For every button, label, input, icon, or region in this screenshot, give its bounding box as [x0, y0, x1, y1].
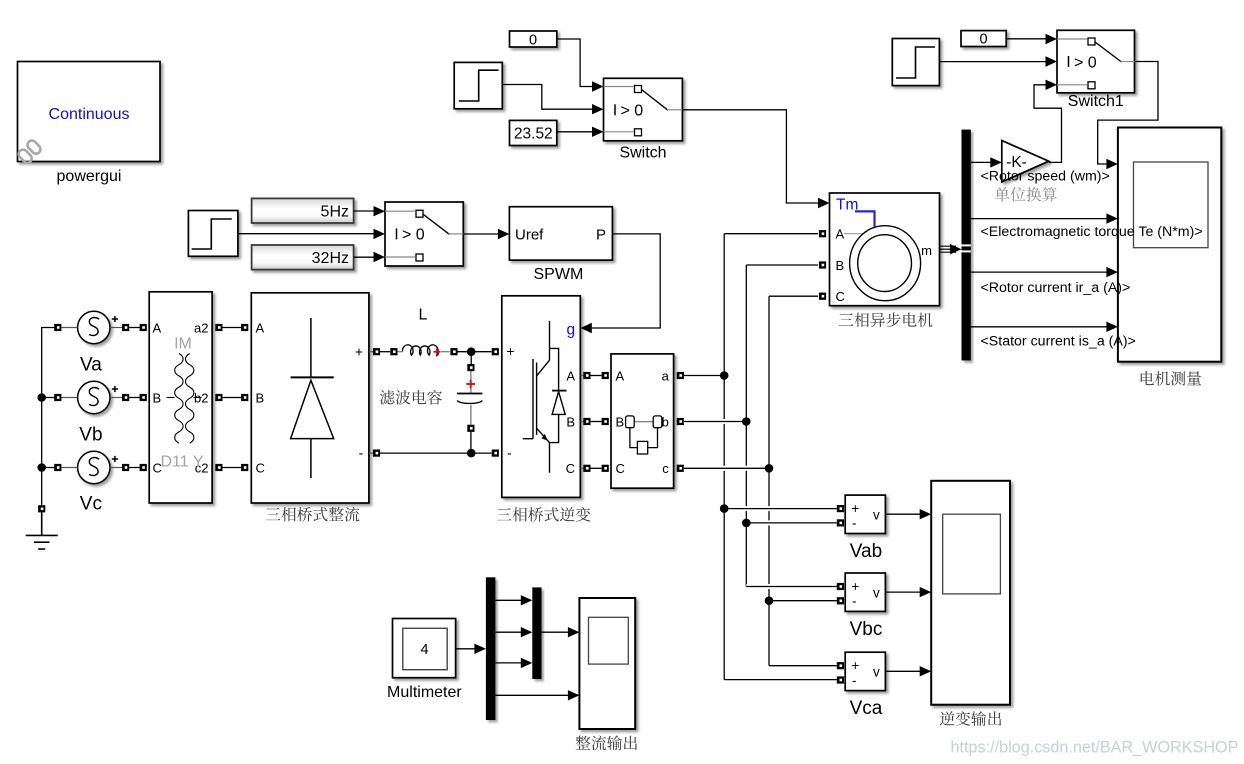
constant block 5Hz — [252, 198, 354, 223]
wire b output to rail — [684, 419, 747, 424]
svg-text:a: a — [662, 368, 670, 383]
motor label — [839, 313, 933, 328]
step source Step1 — [188, 211, 238, 257]
constant block 32Hz — [252, 245, 354, 270]
Vc sine glyph — [89, 458, 99, 476]
wire Va to transformer — [129, 327, 139, 329]
transformer output port — [215, 394, 222, 401]
svg-text:P: P — [596, 227, 606, 244]
scope block motor measurement — [1118, 128, 1221, 362]
inductor right port — [450, 348, 457, 355]
switch output stub — [1121, 61, 1135, 63]
rectifier diode symbol — [291, 318, 334, 478]
wire phase-a vertical rail — [723, 234, 725, 680]
capacitor bottom port — [467, 425, 474, 432]
Vc plus sign — [112, 456, 118, 462]
inverter output stub — [580, 375, 583, 377]
mux bar lower — [532, 587, 541, 679]
rectifier - stub — [369, 452, 373, 454]
wire mux to scope rectifier output — [542, 631, 569, 633]
svg-text:Uref: Uref — [515, 227, 544, 244]
wire rail-b to Vab- — [746, 520, 837, 525]
AC voltage source Va — [78, 311, 110, 343]
svg-text:powergui: powergui — [57, 168, 122, 185]
motor rotor outer circle — [850, 226, 921, 301]
measurement input port — [602, 418, 609, 425]
svg-text:0: 0 — [980, 32, 988, 48]
scope label — [1141, 371, 1202, 386]
step icon — [459, 70, 499, 101]
AC voltage source Vb — [78, 381, 110, 413]
motor A port — [819, 230, 826, 237]
svg-text:-: - — [359, 445, 364, 461]
svg-text:+: + — [851, 501, 859, 516]
wire phase-b vertical rail — [745, 265, 747, 587]
gain block -K- — [1002, 141, 1049, 183]
wire Vc to transformer — [129, 467, 139, 469]
switch threshold tick — [614, 104, 616, 115]
svg-text:b: b — [662, 414, 669, 429]
wire inverter to measurement block — [590, 467, 601, 469]
voltage measurement block Vca — [845, 652, 885, 690]
wire demux to scope input2 — [495, 694, 568, 696]
svg-text:L: L — [418, 307, 427, 324]
switch input-1 port — [635, 86, 642, 93]
wire phase-c vertical rail — [768, 296, 770, 666]
Va sine glyph — [89, 318, 99, 336]
wire transformer to rectifier — [222, 397, 241, 399]
junction node a-rail — [720, 371, 729, 380]
wire rail-a to motor A — [724, 233, 818, 235]
scope block inverter output — [931, 481, 1010, 705]
svg-text:A: A — [616, 368, 625, 383]
block three-phase measurement — [611, 354, 674, 488]
inductor red + polarity — [433, 348, 440, 355]
motor m bus wire — [940, 246, 957, 252]
wire demux to scope row3 — [971, 271, 1107, 273]
wire demux to mux row2 — [495, 631, 521, 633]
wire demux to gain — [971, 161, 991, 163]
svg-text:v: v — [873, 665, 880, 680]
wire SPWM P to inverter g input — [592, 234, 660, 328]
svg-text:<Rotor speed (wm)>: <Rotor speed (wm)> — [981, 168, 1110, 184]
svg-text:4: 4 — [421, 642, 429, 658]
svg-text:-: - — [852, 673, 857, 688]
voltage measurement block Vab — [845, 495, 885, 533]
wire Vca to scope — [885, 670, 920, 672]
capacitor top port — [467, 364, 474, 371]
switch input-3 port — [1088, 82, 1095, 89]
inverter + port — [492, 348, 499, 355]
rectifier - port — [373, 450, 380, 457]
svg-text:c: c — [662, 461, 669, 476]
switch input-1 port — [1088, 38, 1095, 45]
capacitor top plate — [457, 393, 482, 395]
DC- rail wire — [380, 452, 492, 454]
svg-text:SPWM: SPWM — [534, 266, 584, 283]
svg-text:A: A — [256, 320, 265, 335]
Vca + port — [837, 662, 844, 669]
svg-text:C: C — [616, 461, 625, 476]
Va positive port — [122, 324, 129, 331]
Va positive stub wire — [110, 327, 122, 329]
Vbc - port — [837, 597, 844, 604]
neutral bus wire — [42, 328, 55, 506]
wire inverter to measurement block — [590, 421, 601, 423]
neutral stub to Vb — [42, 397, 55, 399]
svg-text:C: C — [836, 289, 845, 304]
step source Step — [454, 62, 502, 108]
block Switch1 — [1057, 30, 1135, 93]
svg-text:<Rotor current ir_a (A)>: <Rotor current ir_a (A)> — [981, 280, 1131, 296]
wire demux to scope row4 — [971, 326, 1107, 328]
svg-text:> 0: > 0 — [402, 227, 425, 244]
svg-text:C: C — [256, 460, 265, 475]
switch input-3 stub — [1057, 84, 1087, 86]
junction node bus-Vc — [37, 463, 46, 472]
wire constant23.52 to Switch input3 — [557, 131, 593, 133]
block frequency switch — [385, 202, 463, 266]
Vab - port — [837, 519, 844, 526]
svg-text:32Hz: 32Hz — [312, 250, 349, 267]
Vbc + port — [837, 583, 844, 590]
svg-text:> 0: > 0 — [1074, 54, 1097, 71]
wire rail-a to Vca- — [724, 679, 837, 681]
block Multimeter — [393, 619, 456, 678]
block Switch — [604, 78, 683, 141]
Vc positive port — [122, 464, 129, 471]
capacitor bottom lead — [470, 405, 472, 425]
wire multimeter to demux — [456, 648, 475, 650]
svg-text:> 0: > 0 — [621, 103, 644, 120]
rectifier label — [266, 507, 360, 522]
transformer-side port — [140, 394, 147, 401]
motor rotor inner circle — [858, 235, 912, 292]
Vb positive stub wire — [110, 397, 122, 399]
svg-text:A: A — [836, 227, 845, 242]
wire c output to rail — [684, 466, 769, 471]
Vc positive stub wire — [110, 467, 122, 469]
svg-text:v: v — [873, 508, 880, 523]
svg-text:+: + — [506, 343, 514, 359]
inductor coil L — [397, 351, 403, 353]
svg-text:Switch1: Switch1 — [1068, 93, 1124, 110]
capacitor top lead — [470, 371, 472, 393]
switch input-1 stub — [604, 86, 634, 88]
svg-text:m: m — [921, 243, 932, 258]
svg-text:Vca: Vca — [850, 698, 883, 719]
svg-text:0: 0 — [529, 32, 537, 48]
block powergui — [18, 62, 161, 162]
junction node DC- — [467, 449, 476, 458]
measurement output port — [677, 372, 684, 379]
switch output stub — [449, 233, 464, 235]
step icon — [896, 47, 935, 78]
wire constant0 to Switch1 input1 — [1006, 38, 1046, 40]
svg-text:B: B — [153, 390, 162, 405]
scope screen — [1134, 162, 1209, 248]
scope label — [576, 736, 637, 751]
switch input-3 port — [635, 129, 642, 136]
block three-phase bridge rectifier — [251, 293, 369, 503]
transformer output port — [215, 324, 222, 331]
svg-text:Continuous: Continuous — [49, 106, 130, 123]
switch lever — [1095, 42, 1122, 62]
svg-text:https://blog.csdn.net/BAR_WORK: https://blog.csdn.net/BAR_WORKSHOP — [951, 739, 1239, 757]
svg-text:Switch: Switch — [619, 145, 666, 162]
Va plus sign — [112, 316, 118, 322]
inverter output port — [583, 372, 590, 379]
Vb negative stub wire — [61, 397, 77, 399]
measurement input port — [602, 465, 609, 472]
wire rail-b to Vbc+ — [746, 584, 837, 589]
wire rectifier+ to inductor — [380, 351, 390, 353]
svg-text:A: A — [153, 320, 162, 335]
wire rail-a to Vab+ — [724, 506, 837, 511]
motor Tm blue connector line — [855, 211, 875, 226]
wire gain to Switch1 input3 — [1034, 85, 1062, 163]
measurement output port — [677, 418, 684, 425]
wire Switch1 to scope input1 — [1098, 62, 1158, 165]
svg-text:B: B — [836, 258, 845, 273]
scope screen — [589, 617, 629, 664]
switch input-1 stub — [1057, 38, 1087, 40]
svg-text:B: B — [256, 390, 265, 405]
wire rail-c to Vbc- — [769, 600, 837, 602]
svg-text:B: B — [566, 414, 575, 429]
svg-text:g: g — [566, 322, 575, 339]
inductor right stub — [441, 351, 450, 353]
wire Step to Switch input2 — [502, 85, 592, 110]
switch output stub — [667, 109, 682, 111]
svg-text:v: v — [873, 585, 880, 600]
filter capacitor label — [380, 390, 442, 405]
svg-text:a2: a2 — [194, 320, 208, 335]
block SPWM — [509, 207, 612, 260]
svg-text:Vbc: Vbc — [850, 619, 883, 640]
wire 32Hz to frequency switch input3 — [354, 256, 374, 258]
svg-text:+: + — [851, 579, 859, 594]
capacitor bottom plate — [457, 401, 482, 404]
AC voltage source Vc — [78, 451, 110, 483]
svg-text:23.52: 23.52 — [514, 126, 553, 143]
svg-text:+: + — [851, 658, 859, 673]
Va negative stub wire — [61, 327, 77, 329]
capacitor red + polarity — [466, 380, 475, 389]
scope screen — [943, 514, 1001, 594]
wire constant0 to Switch input1 — [557, 39, 593, 87]
wire Switch output to motor Tm input — [682, 110, 818, 203]
bus hatch marks — [962, 245, 971, 251]
wire transformer to rectifier — [222, 467, 241, 469]
scope block rectifier output — [579, 598, 635, 729]
step icon — [192, 219, 232, 249]
switch threshold tick — [396, 228, 398, 239]
powergui broken-link icon — [17, 139, 42, 165]
rectifier + stub — [369, 351, 373, 353]
inverter output port — [583, 418, 590, 425]
transformer-side port — [140, 464, 147, 471]
rectifier input port — [241, 324, 248, 331]
inductor left port — [390, 348, 397, 355]
wire rail-c to motor C — [769, 295, 818, 297]
wire demux to scope row2 — [971, 218, 1107, 220]
motor C port — [819, 293, 826, 300]
block three-phase bridge inverter — [502, 296, 581, 498]
switch input-3 stub — [604, 131, 634, 133]
Vb plus sign — [112, 386, 118, 392]
multimeter inner frame — [403, 628, 447, 669]
capacitor branch wire top — [470, 352, 472, 364]
svg-text:-: - — [507, 444, 512, 460]
block three-phase asynchronous motor — [830, 193, 940, 306]
wire Vb to transformer — [129, 397, 139, 399]
wire Step2 to Switch1 input2 — [939, 61, 1046, 63]
switch lever — [642, 90, 669, 111]
wire Vab to scope — [885, 513, 920, 515]
wire Vbc to scope — [885, 591, 920, 593]
wire demux to mux row1 — [495, 599, 521, 601]
wire rail-c to Vca+ — [769, 665, 837, 667]
wire demux to mux row3 — [495, 662, 521, 664]
switch input-3 port — [416, 254, 423, 261]
svg-text:C: C — [566, 461, 575, 476]
Vc negative stub wire — [61, 467, 77, 469]
transformer winding stub left — [167, 397, 175, 399]
junction node DC+ — [467, 347, 476, 356]
transformer winding squiggles — [175, 354, 183, 444]
measurement internal icon — [626, 416, 662, 454]
svg-text:+: + — [355, 343, 363, 359]
switch input-3 stub — [385, 256, 415, 258]
demux bar lower — [486, 577, 496, 720]
motor A stub — [844, 233, 863, 235]
inverter output stub — [580, 421, 583, 423]
step source Step2 — [892, 39, 939, 86]
measurement output port — [677, 465, 684, 472]
wire 5Hz to frequency switch input1 — [354, 210, 374, 212]
rectifier + port — [373, 348, 380, 355]
wire transformer to rectifier — [222, 327, 241, 329]
svg-text:Vab: Vab — [850, 541, 882, 562]
Vb sine glyph — [89, 388, 99, 406]
switch threshold tick — [1068, 56, 1070, 67]
wire a output to rail — [684, 375, 724, 377]
rectifier input port — [241, 394, 248, 401]
switch input-1 port — [416, 210, 423, 217]
inverter - port — [492, 450, 499, 457]
transformer output port — [215, 464, 222, 471]
Vc negative port — [54, 464, 61, 471]
junction node bus-Vb — [37, 393, 46, 402]
junction node b-rail — [742, 417, 751, 426]
wire inverter to measurement block — [590, 375, 601, 377]
svg-text:D11 Y: D11 Y — [161, 454, 204, 471]
ground port — [38, 505, 45, 512]
svg-text:Vc: Vc — [80, 494, 102, 515]
svg-text:-: - — [852, 594, 857, 609]
scope label — [940, 711, 1001, 726]
constant block 0 — [510, 31, 557, 47]
wire inductor to inverter + — [458, 351, 492, 353]
inverter label — [497, 507, 591, 522]
Vab + port — [837, 505, 844, 512]
svg-text:A: A — [566, 368, 575, 383]
inverter IGBT-diode icon — [523, 321, 567, 473]
junction node Vab- branch — [742, 519, 751, 528]
wire rail-b to motor B — [746, 264, 818, 266]
svg-text:<Electromagnetic torque Te (N*: <Electromagnetic torque Te (N*m)> — [981, 224, 1203, 240]
Vb positive port — [122, 394, 129, 401]
svg-text:Vb: Vb — [79, 425, 102, 446]
inverter output stub — [580, 467, 583, 469]
svg-text:B: B — [616, 414, 625, 429]
measurement input port — [602, 372, 609, 379]
constant block 0 (upper right) — [961, 31, 1006, 47]
svg-text:Va: Va — [80, 355, 102, 376]
inverter output port — [583, 465, 590, 472]
demux selector bar — [962, 130, 971, 361]
gain label — [995, 187, 1057, 202]
Va negative port — [54, 324, 61, 331]
svg-text:IM: IM — [174, 336, 192, 353]
svg-text:<Stator current is_a (A)>: <Stator current is_a (A)> — [981, 334, 1136, 350]
Vca - port — [837, 676, 844, 683]
junction node Vbc- branch — [765, 596, 774, 605]
ground symbol — [26, 512, 58, 549]
svg-text:Multimeter: Multimeter — [387, 684, 462, 701]
block three-phase transformer IM — [149, 292, 212, 503]
constant block 23.52 — [510, 120, 557, 145]
wire Step1 to frequency switch input2 — [238, 233, 374, 235]
switch input-1 stub — [385, 210, 415, 212]
junction node c-rail — [765, 464, 774, 473]
capacitor wire to DC- rail — [470, 432, 472, 453]
voltage measurement block Vbc — [845, 573, 885, 611]
transformer-side port — [140, 324, 147, 331]
neutral stub to Vc — [42, 467, 55, 469]
svg-text:5Hz: 5Hz — [321, 203, 349, 220]
Vb negative port — [54, 394, 61, 401]
transformer winding stub right — [194, 397, 202, 399]
switch lever — [423, 214, 450, 234]
wire frequency switch to SPWM Uref — [463, 233, 498, 235]
svg-text:-: - — [852, 516, 857, 531]
rectifier input port — [241, 464, 248, 471]
junction node Vab+ branch — [720, 504, 729, 513]
motor B port — [819, 261, 826, 268]
